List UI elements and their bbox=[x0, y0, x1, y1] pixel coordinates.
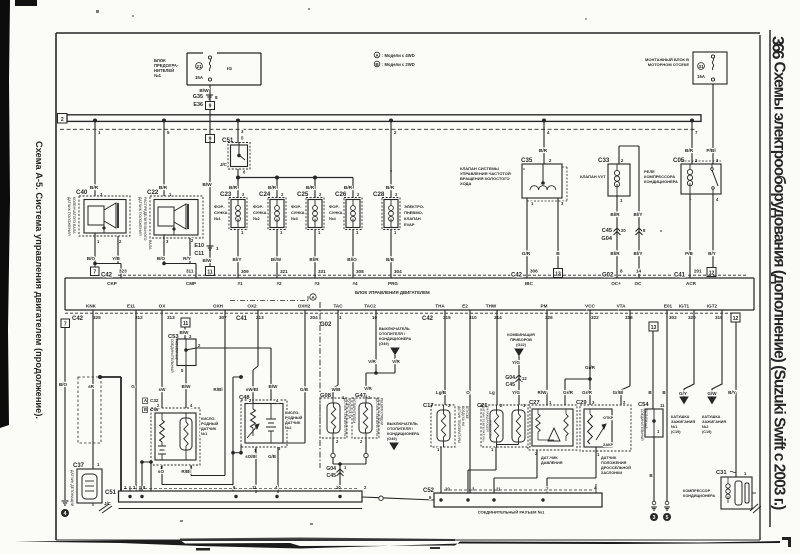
C31 ground hatch bbox=[750, 504, 761, 513]
fuse 21 15A symbol bbox=[195, 56, 232, 81]
svg-text:ВАЛА: ВАЛА bbox=[148, 240, 152, 250]
svg-text:7: 7 bbox=[64, 322, 67, 328]
wire C24 to ECU pin 321 bbox=[271, 230, 288, 279]
svg-text:ДАТЧИК ПОЛОЖЕНИЯ: ДАТЧИК ПОЛОЖЕНИЯ bbox=[67, 197, 71, 236]
svg-text:201: 201 bbox=[694, 269, 702, 274]
svg-text:B/O: B/O bbox=[157, 256, 166, 261]
svg-text:326: 326 bbox=[545, 315, 553, 320]
svg-text:E11: E11 bbox=[127, 304, 135, 309]
svg-text:ЭЛЕКТРО-: ЭЛЕКТРО- bbox=[404, 204, 425, 209]
wire THA Lg/B to C17 bbox=[436, 310, 447, 405]
C29 label bbox=[601, 456, 631, 475]
svg-text:PRG: PRG bbox=[388, 281, 398, 286]
wire C22 pin3 B/O bbox=[157, 235, 166, 264]
svg-text:КОНДИЦИОНЕРА: КОНДИЦИОНЕРА bbox=[379, 337, 411, 341]
svg-text:R/Y: R/Y bbox=[183, 256, 191, 261]
svg-text:P/B: P/B bbox=[685, 251, 693, 256]
svg-text:315: 315 bbox=[443, 315, 451, 320]
svg-text:213: 213 bbox=[256, 315, 264, 320]
injector valve C23 bbox=[220, 191, 247, 235]
svg-text:ЖИДКОСТИ: ЖИДКОСТИ bbox=[489, 420, 493, 438]
svg-text:308: 308 bbox=[356, 269, 364, 274]
svg-text:Bl/Y: Bl/Y bbox=[634, 251, 643, 256]
coolant temperature sensor C21 bbox=[477, 403, 530, 452]
wire P/Bl from engine-bay fuse bbox=[706, 84, 715, 164]
svg-text:E36: E36 bbox=[193, 102, 203, 108]
svg-text:Gr/Bl: Gr/Bl bbox=[613, 390, 624, 395]
svg-text:304: 304 bbox=[394, 269, 402, 274]
svg-text:C42: C42 bbox=[72, 316, 84, 322]
svg-text:C45: C45 bbox=[505, 382, 515, 388]
svg-text:ОТОПИТЕЛЯ /: ОТОПИТЕЛЯ / bbox=[387, 427, 414, 431]
wire B/W E36 to connector 9 bbox=[209, 110, 211, 136]
svg-text:R/Bl: R/Bl bbox=[181, 469, 190, 474]
svg-text:C51: C51 bbox=[105, 490, 117, 496]
svg-text:325: 325 bbox=[93, 315, 101, 320]
fuse block 1 label bbox=[154, 58, 179, 78]
svg-text:C24: C24 bbox=[259, 191, 271, 198]
svg-text:C05: C05 bbox=[673, 157, 685, 164]
svg-text:ДАТЧИК: ДАТЧИК bbox=[201, 427, 217, 431]
svg-text:B/W: B/W bbox=[202, 182, 212, 188]
page number 366 bbox=[769, 36, 788, 59]
svg-text:КОНДИЦИОНЕРА: КОНДИЦИОНЕРА bbox=[683, 494, 715, 498]
wires G08 G47 grounds join bbox=[326, 438, 368, 491]
svg-text:11: 11 bbox=[207, 270, 213, 276]
svg-text:316: 316 bbox=[625, 315, 633, 320]
svg-text:IBC: IBC bbox=[525, 281, 534, 286]
svg-text:ДАТЧИК: ДАТЧИК bbox=[601, 456, 617, 460]
wires to C51 pins 2 and 8 bbox=[140, 460, 153, 491]
svg-text:12: 12 bbox=[709, 271, 715, 277]
svg-text:OXH2: OXH2 bbox=[298, 304, 311, 309]
svg-text:ДАТЧИК ТЕМПЕРАТУРЫ: ДАТЧИК ТЕМПЕРАТУРЫ bbox=[482, 406, 486, 442]
wire O2-1 pin3 R/Bl to OXH bbox=[181, 465, 225, 476]
ECU top pin names bbox=[107, 281, 697, 286]
manifold pressure sensor C27 bbox=[528, 400, 577, 456]
throttle position sensor C29 bbox=[576, 400, 631, 457]
svg-text:OX2: OX2 bbox=[247, 304, 257, 309]
svg-text:ДАТ-ЧИК: ДАТ-ЧИК bbox=[541, 456, 558, 460]
svg-text:№1: №1 bbox=[201, 432, 207, 436]
svg-text:ВЫКЛЮЧАТЕЛЬ: ВЫКЛЮЧАТЕЛЬ bbox=[387, 422, 418, 426]
svg-text:№1: №1 bbox=[214, 216, 221, 221]
svg-text:ЗАЖИГАНИЯ: ЗАЖИГАНИЯ bbox=[702, 420, 726, 424]
svg-text:THA: THA bbox=[435, 304, 445, 309]
model split dash-dot divider bbox=[319, 302, 321, 468]
svg-text:C31: C31 bbox=[716, 470, 727, 476]
svg-text:B/Y: B/Y bbox=[708, 251, 716, 256]
svg-text:VTA: VTA bbox=[617, 304, 627, 309]
camshaft position sensor C22 bbox=[147, 189, 203, 244]
shield drain heavy wire to C51 bar bbox=[98, 375, 121, 491]
svg-text:309: 309 bbox=[241, 269, 249, 274]
svg-text:B/W: B/W bbox=[203, 258, 213, 263]
svg-text:IG: IG bbox=[227, 66, 232, 72]
svg-text:20: 20 bbox=[621, 228, 626, 233]
bus dashed underline bbox=[60, 128, 695, 130]
svg-text:ОТКР: ОТКР bbox=[603, 416, 614, 420]
wire IGT1 G/Y to ignition coil 1 bbox=[679, 310, 694, 404]
connector box 12 bottom row bbox=[731, 313, 740, 322]
svg-text:(G49): (G49) bbox=[379, 342, 389, 346]
ground symbol 4 bbox=[61, 501, 69, 517]
wire E11 G to C51 bar bbox=[131, 310, 136, 491]
svg-text:OXH: OXH bbox=[213, 304, 224, 309]
svg-text:15A: 15A bbox=[697, 74, 705, 79]
wire TAC W/B to G08 bbox=[332, 310, 342, 398]
svg-text:#3: #3 bbox=[314, 281, 320, 286]
C28 label bbox=[404, 204, 425, 227]
svg-text:C11: C11 bbox=[194, 251, 204, 257]
svg-text:P/Bl: P/Bl bbox=[706, 148, 715, 154]
svg-text:9: 9 bbox=[209, 104, 212, 110]
G47 rotated label bbox=[375, 398, 384, 436]
svg-text:B/B: B/B bbox=[386, 257, 395, 262]
C31 label bbox=[683, 489, 715, 498]
svg-text:(C19): (C19) bbox=[702, 430, 712, 434]
inline connector C45 G04 on VVT wires bbox=[601, 228, 646, 256]
svg-text:G35: G35 bbox=[193, 94, 203, 100]
svg-text:12: 12 bbox=[522, 376, 527, 381]
svg-text:РОДНЫЙ: РОДНЫЙ bbox=[201, 422, 219, 426]
ignition coil 2 label bbox=[702, 415, 726, 434]
C35 label bbox=[460, 166, 511, 186]
wire THW Lg to C21 bbox=[489, 310, 497, 405]
svg-text:РАЗЪЕМ №3: РАЗЪЕМ №3 bbox=[644, 409, 648, 429]
svg-text:13: 13 bbox=[555, 272, 561, 278]
wire bus to C28 pin2 bbox=[386, 121, 397, 198]
svg-text:#2: #2 bbox=[276, 281, 282, 286]
svg-text:V/R: V/R bbox=[364, 386, 372, 391]
wire C27 VCC branch Gr/R bbox=[563, 365, 596, 405]
svg-text:C25: C25 bbox=[297, 191, 309, 198]
wire E01 to ground 5 bbox=[662, 310, 671, 521]
wire O2-1 pin1 sO to bar bbox=[158, 465, 233, 485]
C25 label bbox=[291, 204, 305, 221]
C22 label: датчик положения распределительного вала bbox=[138, 197, 152, 250]
node CMP junction bbox=[162, 262, 196, 278]
svg-text:МОТОРНОМ ОТСЕКЕ: МОТОРНОМ ОТСЕКЕ bbox=[648, 62, 690, 67]
connector box 7 top row bbox=[91, 264, 100, 276]
wire rail to C25 bbox=[306, 178, 322, 199]
svg-text:B/W: B/W bbox=[182, 384, 192, 389]
svg-text:ВПУСКЕ: ВПУСКЕ bbox=[465, 406, 469, 419]
wire C29 ground to C52 bar bbox=[547, 447, 596, 493]
svg-text:ИСПАРИТЕЛЕМ: ИСПАРИТЕЛЕМ bbox=[352, 398, 356, 423]
G08 rotated label bbox=[343, 398, 356, 436]
wire bus to C51 bbox=[238, 121, 244, 143]
wire C23 to ECU pin 309 bbox=[233, 230, 250, 279]
wire C48 pin3 G/B to bar bbox=[268, 447, 278, 493]
C17 rotated label bbox=[457, 406, 469, 443]
oxygen sensor 2 C48 bbox=[239, 395, 287, 453]
svg-text:КОМПРЕССОР: КОМПРЕССОР bbox=[683, 489, 711, 493]
C40 label: датчик положения коленчатого вала bbox=[67, 197, 76, 236]
legend 4WD 2WD models bbox=[374, 52, 415, 67]
C24 label bbox=[253, 204, 267, 221]
svg-text:C28: C28 bbox=[373, 191, 385, 198]
node near C48 feed bbox=[231, 375, 243, 491]
svg-text:11: 11 bbox=[660, 403, 665, 408]
svg-text:320: 320 bbox=[688, 315, 696, 320]
wire C51 bar to C52 bar bbox=[362, 496, 434, 500]
wire rail to C26 bbox=[344, 178, 360, 199]
svg-text:B/O: B/O bbox=[87, 256, 96, 261]
svg-text:№4: №4 bbox=[329, 216, 336, 221]
right margin rotated title bbox=[771, 62, 788, 511]
svg-text:1: 1 bbox=[339, 315, 342, 320]
svg-text:C54: C54 bbox=[638, 402, 649, 408]
svg-text:Lg/B: Lg/B bbox=[436, 390, 447, 395]
svg-text:EVAP: EVAP bbox=[404, 222, 415, 227]
circled A marker with dash-dot leader bbox=[230, 294, 316, 301]
wire C53 to C48 heater B/W bbox=[196, 348, 278, 400]
svg-text:11: 11 bbox=[183, 321, 189, 327]
wire C33 pin1 Bl/R bbox=[610, 196, 642, 278]
svg-text:C42: C42 bbox=[101, 272, 113, 278]
svg-text:Lg: Lg bbox=[489, 390, 495, 395]
svg-text:10: 10 bbox=[372, 315, 378, 320]
svg-text:РЕЦИРКУЛЯЦИИ: РЕЦИРКУЛЯЦИИ bbox=[380, 398, 384, 426]
scan artifact: bottom right corner mark bbox=[782, 537, 791, 547]
injector valve C25 bbox=[297, 191, 324, 235]
wire C51 to injector feed rail bbox=[237, 169, 239, 178]
wire B/W from fuse to E36 bbox=[199, 85, 210, 102]
VVT valve C33 bbox=[598, 157, 630, 203]
connector box 12 top row bbox=[707, 268, 716, 277]
svg-text:G/B: G/B bbox=[300, 387, 309, 392]
joint connector bar C52 bbox=[423, 484, 602, 507]
svg-text:C17: C17 bbox=[423, 403, 434, 409]
svg-text:307: 307 bbox=[219, 315, 227, 320]
svg-text:E2: E2 bbox=[462, 304, 468, 309]
svg-text:TAC: TAC bbox=[333, 304, 343, 309]
svg-text:G/B: G/B bbox=[268, 454, 276, 459]
svg-text:ДАТЧИК ДЕТОНАЦИИ: ДАТЧИК ДЕТОНАЦИИ bbox=[70, 470, 74, 507]
svg-text:302: 302 bbox=[669, 315, 677, 320]
svg-text:C22: C22 bbox=[147, 189, 159, 196]
injector valve C24 bbox=[259, 191, 286, 235]
svg-text:ФОР-: ФОР- bbox=[329, 204, 340, 209]
svg-text:ВОЗДУХА НА: ВОЗДУХА НА bbox=[461, 406, 465, 427]
svg-text:ДАТЧИК ТЕМПЕРАТУРЫ: ДАТЧИК ТЕМПЕРАТУРЫ bbox=[375, 398, 379, 436]
svg-text:№3: №3 bbox=[291, 216, 298, 221]
C05 label bbox=[644, 169, 678, 184]
ignition coil 1 label bbox=[671, 415, 695, 434]
svg-text:ХОДА: ХОДА bbox=[460, 181, 471, 186]
svg-text:11: 11 bbox=[496, 487, 501, 492]
svg-text:Bl/Y: Bl/Y bbox=[634, 212, 643, 217]
joint connector bar C51 bbox=[105, 485, 367, 502]
svg-text:CMP: CMP bbox=[186, 281, 196, 286]
svg-text:№2: №2 bbox=[285, 426, 291, 430]
svg-text:КОМБИНАЦИЯ: КОМБИНАЦИЯ bbox=[507, 333, 535, 337]
svg-text:B/R: B/R bbox=[386, 185, 395, 191]
svg-text:ПНЕВМО-: ПНЕВМО- bbox=[404, 210, 424, 215]
O2 sensor 2 label bbox=[285, 411, 303, 430]
svg-text:РАЗЪЕМ №2: РАЗЪЕМ №2 bbox=[175, 339, 179, 360]
ECU top pin labels row bbox=[101, 269, 702, 279]
svg-text:Y/B: Y/B bbox=[112, 256, 120, 261]
scan artifact: bottom dark smudge band bbox=[14, 538, 780, 551]
svg-text:КОНДИЦИОНЕРА: КОНДИЦИОНЕРА bbox=[387, 432, 419, 436]
svg-text:B/R: B/R bbox=[685, 148, 694, 154]
svg-text:G/R: G/R bbox=[522, 251, 531, 257]
svg-text:Bl/Y: Bl/Y bbox=[233, 257, 242, 262]
svg-text:КЛАПАН VVT: КЛАПАН VVT bbox=[580, 174, 606, 179]
svg-text:THW: THW bbox=[486, 304, 497, 309]
svg-text:R/Bl: R/Bl bbox=[213, 387, 222, 392]
svg-text:15A: 15A bbox=[195, 75, 204, 80]
node CKP junction bbox=[93, 262, 121, 278]
svg-text:21: 21 bbox=[196, 64, 202, 69]
wire C27 ground to C52 bar bbox=[494, 450, 537, 493]
wire C26 to ECU pin 308 bbox=[347, 230, 364, 279]
svg-text:КОЛЕНЧАТОГО ВАЛА: КОЛЕНЧАТОГО ВАЛА bbox=[72, 197, 76, 234]
svg-text:А: А bbox=[144, 398, 147, 403]
wire C17 pin1 to C52 bar bbox=[440, 447, 442, 493]
svg-text:№2: №2 bbox=[253, 216, 260, 221]
svg-text:C40: C40 bbox=[76, 189, 88, 196]
svg-text:ДАТЧИК ТЕМПЕРАТУРЫ: ДАТЧИК ТЕМПЕРАТУРЫ bbox=[457, 406, 461, 443]
wire box12 B/Y to compressor C31 bbox=[728, 322, 736, 477]
junction connector C51 top bbox=[220, 143, 250, 175]
knock sensor C37 bbox=[73, 462, 102, 506]
wire rail to C23 bbox=[229, 178, 245, 199]
wire B/O from box7 to ground 4 bbox=[59, 328, 68, 501]
svg-text:ОТОПИТЕЛЯ /: ОТОПИТЕЛЯ / bbox=[379, 332, 406, 336]
wire C25 to ECU pin 331 bbox=[309, 230, 326, 279]
svg-text:C42: C42 bbox=[422, 316, 434, 322]
svg-text:#1: #1 bbox=[237, 281, 243, 286]
svg-text:ДАТЧИК ТЕМПЕРАТУРЫ: ДАТЧИК ТЕМПЕРАТУРЫ bbox=[343, 398, 347, 436]
svg-text:322: 322 bbox=[591, 315, 599, 320]
svg-text:ПОЛОЖЕНИЯ: ПОЛОЖЕНИЯ bbox=[601, 461, 627, 465]
svg-text:Bl/R: Bl/R bbox=[610, 251, 620, 256]
svg-text:10: 10 bbox=[445, 487, 450, 492]
svg-text:IGT2: IGT2 bbox=[707, 304, 718, 309]
bus junction dots bbox=[93, 119, 694, 123]
idle air control valve C35 bbox=[521, 157, 567, 206]
svg-text:(C19): (C19) bbox=[671, 430, 681, 434]
second off-page arrow to G49 bbox=[387, 422, 419, 450]
connector box 7 bottom row bbox=[61, 319, 70, 328]
svg-text:OC: OC bbox=[635, 281, 643, 286]
svg-text:C41: C41 bbox=[236, 316, 248, 322]
wire OX to oxygen sensor 1 bbox=[159, 310, 167, 408]
svg-text:C42: C42 bbox=[511, 272, 523, 278]
right sidebar divider line bbox=[769, 30, 771, 527]
svg-text:TAC2: TAC2 bbox=[364, 304, 376, 309]
svg-text:ПРИБОРОВ: ПРИБОРОВ bbox=[510, 338, 532, 342]
svg-text:РАСПРЕДЕЛИТЕЛЬНОГО: РАСПРЕДЕЛИТЕЛЬНОГО bbox=[143, 197, 147, 241]
svg-text:Gr/R: Gr/R bbox=[563, 390, 574, 395]
ECU bottom pin names bbox=[86, 304, 718, 309]
wire OXH2 G/B bbox=[283, 310, 309, 443]
svg-text:sW/Bl: sW/Bl bbox=[246, 387, 258, 392]
svg-text:OX: OX bbox=[159, 304, 167, 309]
svg-text:R/W: R/W bbox=[538, 390, 548, 395]
svg-text:ДАТЧИК ПОЛОЖЕНИЯ: ДАТЧИК ПОЛОЖЕНИЯ bbox=[138, 197, 142, 236]
svg-text:G04: G04 bbox=[601, 236, 612, 242]
svg-text:КЛАПАН: КЛАПАН bbox=[404, 216, 421, 221]
svg-text:СУНКА: СУНКА bbox=[253, 210, 267, 215]
svg-text:sR: sR bbox=[88, 384, 95, 389]
svg-text:314: 314 bbox=[494, 315, 502, 320]
svg-text:366: 366 bbox=[769, 36, 788, 59]
wire KNK shielded to C37 bbox=[88, 310, 95, 469]
ECU bottom edge line bbox=[65, 309, 754, 311]
oxygen sensor 1 C48-area box bbox=[151, 403, 200, 470]
wire bus to C35 pin2 bbox=[539, 121, 550, 164]
labels A C32 B C56 bbox=[143, 398, 159, 413]
junction connector C53 bbox=[168, 334, 201, 373]
svg-text:ДАВЛЕНИЯ: ДАВЛЕНИЯ bbox=[541, 461, 563, 465]
svg-text:8: 8 bbox=[215, 95, 218, 100]
left margin rotated caption: Схема А-5 bbox=[34, 141, 44, 419]
wire OXH from ECU bbox=[213, 310, 225, 476]
svg-text:PM: PM bbox=[541, 304, 548, 309]
svg-text:C35: C35 bbox=[521, 157, 533, 164]
svg-text:#4: #4 bbox=[352, 281, 358, 286]
svg-text:№1: №1 bbox=[671, 425, 677, 429]
C26 label bbox=[329, 204, 343, 221]
svg-text:C26: C26 bbox=[335, 191, 347, 198]
svg-text:C52: C52 bbox=[423, 488, 435, 494]
connector box 9 lower bbox=[206, 135, 234, 145]
evaporator temp sensor G08 bbox=[320, 393, 347, 444]
svg-text:B/R: B/R bbox=[539, 148, 548, 154]
svg-text:В: В bbox=[144, 407, 147, 412]
svg-text:Схема А-5. Система управления: Схема А-5. Система управления двигателем… bbox=[34, 141, 44, 419]
svg-text:Bl/O: Bl/O bbox=[347, 257, 357, 262]
wire C40 pin2 Y/B bbox=[112, 236, 120, 264]
svg-text:ФОР-: ФОР- bbox=[291, 204, 302, 209]
svg-text:КАТУШКА: КАТУШКА bbox=[671, 415, 690, 419]
svg-text:C45: C45 bbox=[602, 228, 612, 234]
crankshaft position sensor C40 bbox=[76, 189, 130, 244]
wire B/W box11 to C53 bbox=[180, 327, 190, 339]
svg-text:J/C: J/C bbox=[220, 162, 228, 167]
scan specks bbox=[132, 8, 662, 525]
wire E2 to C52 bar bbox=[466, 310, 470, 493]
svg-text:323: 323 bbox=[119, 269, 127, 274]
svg-text:ОХЛАЖДАЮЩЕЙ: ОХЛАЖДАЮЩЕЙ bbox=[485, 406, 489, 432]
ground E10 C11 on B/W wire bbox=[194, 141, 219, 267]
svg-text:sO/Bl: sO/Bl bbox=[245, 454, 256, 459]
svg-text:БЛОК УПРАВЛЕНИЯ ДВИГАТЕЛЕМ: БЛОК УПРАВЛЕНИЯ ДВИГАТЕЛЕМ bbox=[355, 290, 430, 295]
wire VTA Gr/Bl to C29 bbox=[613, 310, 630, 405]
svg-text:B/W: B/W bbox=[180, 330, 190, 335]
junction connector C54 bbox=[638, 402, 665, 437]
svg-text:ЗАКР: ЗАКР bbox=[603, 443, 613, 447]
instrument cluster G22 branch bbox=[505, 333, 535, 405]
svg-text:O: O bbox=[466, 390, 470, 395]
svg-text:E01: E01 bbox=[664, 304, 673, 309]
svg-text:№1: №1 bbox=[154, 73, 162, 78]
svg-text:311: 311 bbox=[186, 269, 194, 274]
svg-text:СОЕДИНИТЕЛЬНЫЙ РАЗЪЕМ №1: СОЕДИНИТЕЛЬНЫЙ РАЗЪЕМ №1 bbox=[478, 510, 545, 515]
connector box 11 bottom row bbox=[181, 318, 190, 327]
svg-text:КИСЛО-: КИСЛО- bbox=[285, 411, 300, 415]
svg-text:Bl/R: Bl/R bbox=[309, 257, 319, 262]
svg-text:313: 313 bbox=[167, 315, 175, 320]
svg-text:10: 10 bbox=[336, 485, 341, 490]
svg-text:13: 13 bbox=[651, 325, 657, 331]
svg-text:204: 204 bbox=[310, 315, 318, 320]
C23 label bbox=[214, 204, 228, 221]
